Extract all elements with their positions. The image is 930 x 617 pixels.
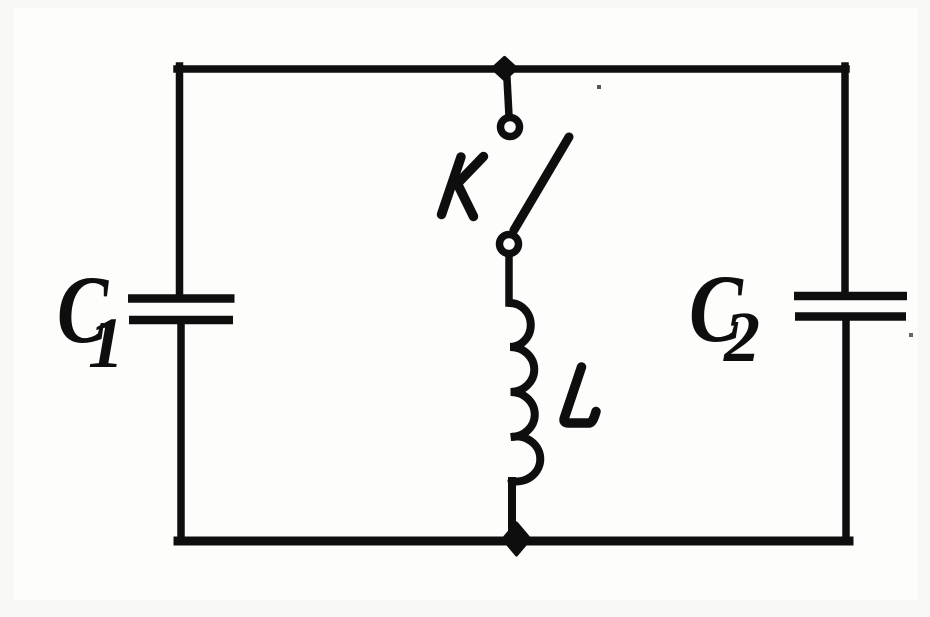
capacitor C2: lower plate (795, 312, 906, 321)
label L (564, 367, 596, 423)
switch K: lower contact circle (500, 235, 519, 254)
wire: top horizontal (node A rail) (177, 65, 846, 73)
node: bottom junction (503, 523, 530, 555)
capacitor C2: upper plate (794, 292, 907, 301)
scan speck near top wire (597, 85, 601, 89)
wire: top junction to switch contact (507, 69, 510, 116)
wire: right vertical upper (top rail to C2) (841, 66, 849, 296)
capacitor C1: lower plate (129, 316, 233, 325)
node: top junction (493, 58, 516, 79)
svg-text:2: 2 (723, 297, 760, 377)
scan speck near C2 (909, 333, 913, 337)
label C1 (57, 257, 124, 383)
label C2 (689, 257, 760, 377)
svg-text:1: 1 (88, 303, 124, 383)
inductor L: coil (4 turns) (510, 303, 541, 481)
wire: inductor to bottom junction (508, 481, 516, 538)
wire: left vertical upper (top rail to C1) (176, 66, 184, 298)
capacitor C1: upper plate (128, 294, 235, 303)
switch K: lever arm (open) (514, 137, 569, 230)
wire: left vertical lower (C1 to bottom rail) (177, 321, 185, 541)
wire: bottom horizontal rail (178, 537, 849, 546)
switch K: upper contact circle (501, 118, 520, 137)
label K (442, 157, 484, 217)
wire: right vertical lower (C2 to bottom rail) (842, 318, 850, 541)
wire: switch to inductor (505, 254, 513, 303)
